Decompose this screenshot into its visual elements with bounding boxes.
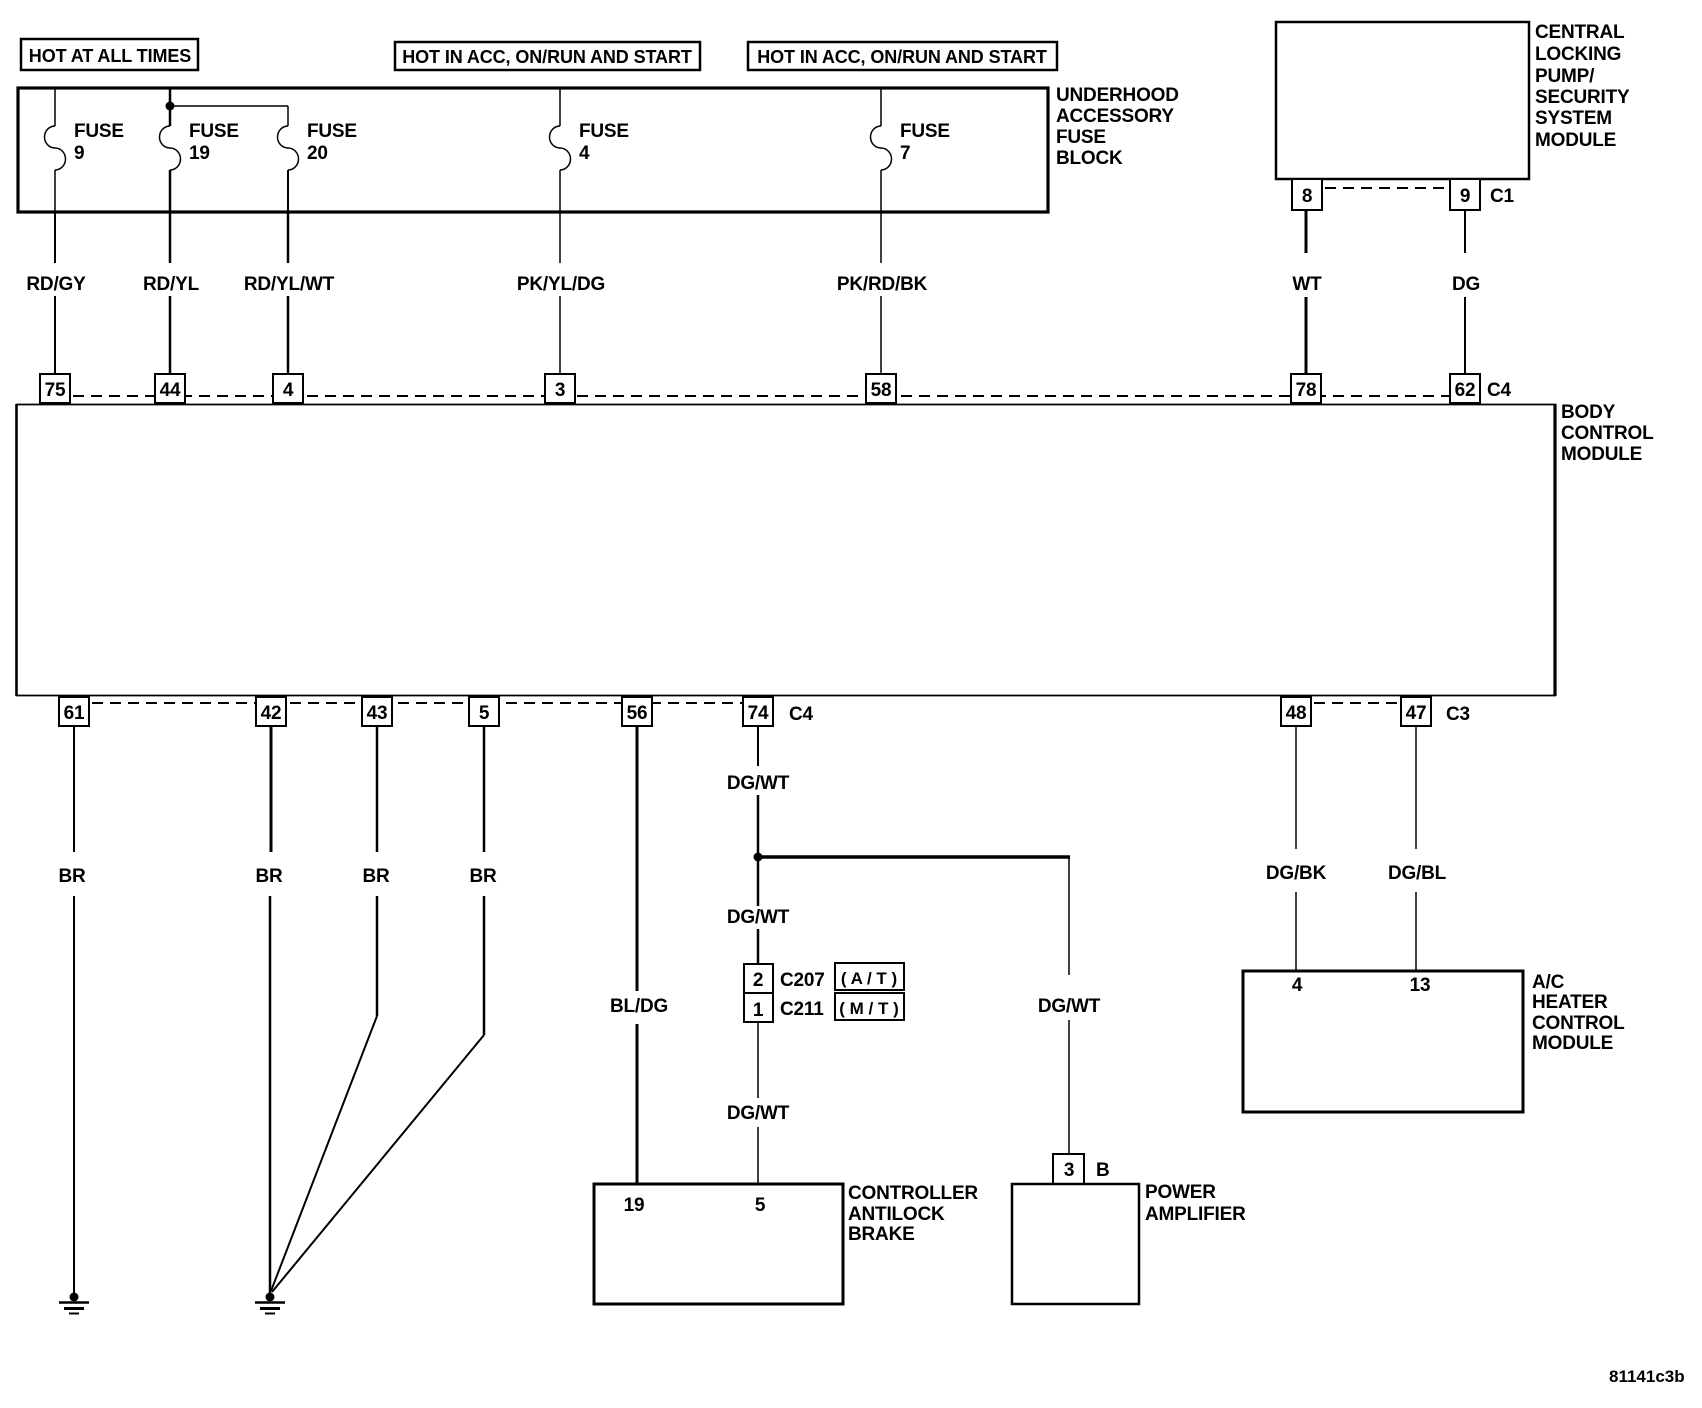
- svg-text:BRAKE: BRAKE: [848, 1224, 915, 1245]
- svg-text:DG/WT: DG/WT: [727, 1103, 790, 1124]
- svg-text:56: 56: [627, 703, 648, 724]
- svg-text:47: 47: [1406, 703, 1427, 724]
- fuse FUSE 20: [278, 106, 357, 212]
- pin 62 C4: [1450, 374, 1480, 403]
- connector C207 pin 2: [744, 964, 825, 993]
- svg-text:CONTROLLER: CONTROLLER: [848, 1183, 978, 1204]
- svg-text:4: 4: [283, 380, 294, 401]
- wire RD/YL fuse 19 to pin 44: [143, 212, 200, 374]
- svg-text:HOT IN ACC, ON/RUN AND START: HOT IN ACC, ON/RUN AND START: [402, 47, 692, 67]
- pin 74 C4: [743, 697, 773, 726]
- wire BR pin 43 to ground G2: [271, 726, 390, 1291]
- label (M/T): [835, 993, 904, 1020]
- svg-text:4: 4: [579, 143, 590, 164]
- module UNDERHOOD ACCESSORY FUSE BLOCK box: [18, 85, 1179, 212]
- svg-text:HEATER: HEATER: [1532, 992, 1608, 1013]
- wire BR pin 42 to ground G2: [255, 726, 283, 1293]
- svg-text:BODY: BODY: [1561, 402, 1616, 423]
- svg-text:WT: WT: [1292, 274, 1322, 295]
- wire DG/WT pin 74 down to junction: [727, 726, 790, 857]
- svg-text:FUSE: FUSE: [307, 121, 357, 142]
- svg-text:BR: BR: [58, 866, 86, 887]
- svg-text:19: 19: [624, 1195, 645, 1216]
- wire BR pin 61 to ground G1: [58, 726, 86, 1293]
- wire DG/WT connector C211 to controller antilock brake pin 5: [727, 1022, 790, 1184]
- wire BL/DG pin 56 to controller antilock brake pin 19: [610, 726, 668, 1184]
- fuse FUSE 19: [160, 88, 239, 212]
- pin 47 C3: [1401, 697, 1431, 726]
- ground G2: [255, 1293, 285, 1314]
- svg-text:19: 19: [189, 143, 210, 164]
- svg-text:MODULE: MODULE: [1535, 130, 1616, 151]
- pin 42 C4: [256, 697, 286, 726]
- svg-text:ACCESSORY: ACCESSORY: [1056, 106, 1174, 127]
- ground G1: [59, 1293, 89, 1314]
- svg-text:7: 7: [900, 143, 910, 164]
- svg-text:FUSE: FUSE: [189, 121, 239, 142]
- svg-text:2: 2: [753, 970, 763, 991]
- svg-text:UNDERHOOD: UNDERHOOD: [1056, 85, 1179, 106]
- module POWER AMPLIFIER: [1012, 1182, 1246, 1304]
- svg-text:4: 4: [1292, 975, 1303, 996]
- svg-text:FUSE: FUSE: [900, 121, 950, 142]
- svg-text:81141c3b: 81141c3b: [1609, 1367, 1685, 1386]
- svg-text:C3: C3: [1446, 704, 1470, 725]
- svg-text:C211: C211: [780, 999, 824, 1020]
- svg-text:RD/YL/WT: RD/YL/WT: [244, 274, 335, 295]
- wire DG pin 9 to pin 62: [1452, 210, 1480, 374]
- svg-text:75: 75: [45, 380, 66, 401]
- svg-text:C1: C1: [1490, 186, 1515, 207]
- svg-text:RD/GY: RD/GY: [26, 274, 86, 295]
- wire WT pin 8 to pin 78: [1292, 210, 1322, 374]
- module CONTROLLER ANTILOCK BRAKE: [594, 1183, 978, 1304]
- junction dot DG/WT: [754, 853, 763, 862]
- module BODY CONTROL MODULE box: [16, 402, 1654, 696]
- pin 61 C4: [59, 697, 89, 726]
- svg-text:A/C: A/C: [1532, 972, 1565, 993]
- svg-text:58: 58: [871, 380, 892, 401]
- pin 44 C4: [155, 374, 185, 403]
- svg-text:SECURITY: SECURITY: [1535, 87, 1630, 108]
- svg-text:DG: DG: [1452, 274, 1480, 295]
- svg-text:CONTROL: CONTROL: [1561, 423, 1654, 444]
- pin 3 C4: [545, 374, 575, 403]
- svg-text:13: 13: [1410, 975, 1431, 996]
- module A/C HEATER CONTROL MODULE: [1243, 971, 1625, 1112]
- dashed connector line C4 top row: [55, 395, 1465, 397]
- svg-text:74: 74: [748, 703, 769, 724]
- wire PK/RD/BK fuse 7 to pin 58: [837, 212, 928, 374]
- svg-text:42: 42: [261, 703, 282, 724]
- svg-text:44: 44: [160, 380, 181, 401]
- svg-text:1: 1: [753, 1000, 764, 1021]
- svg-text:9: 9: [74, 143, 84, 164]
- svg-text:CONTROL: CONTROL: [1532, 1013, 1625, 1034]
- svg-text:FUSE: FUSE: [74, 121, 124, 142]
- svg-text:HOT IN ACC, ON/RUN AND START: HOT IN ACC, ON/RUN AND START: [757, 47, 1047, 67]
- svg-text:LOCKING: LOCKING: [1535, 44, 1621, 65]
- svg-text:9: 9: [1460, 186, 1470, 207]
- svg-text:B: B: [1096, 1160, 1110, 1181]
- module CENTRAL LOCKING PUMP/SECURITY SYSTEM MODULE: [1276, 22, 1630, 179]
- pin 58 C4: [866, 374, 896, 403]
- dashed connector line C4 bottom row: [74, 702, 758, 704]
- pin 43 C4: [362, 697, 392, 726]
- fuse FUSE 4: [550, 88, 629, 212]
- svg-text:PK/RD/BK: PK/RD/BK: [837, 274, 928, 295]
- svg-text:PUMP/: PUMP/: [1535, 66, 1595, 87]
- svg-text:DG/WT: DG/WT: [727, 907, 790, 928]
- pin 5 C4: [469, 697, 499, 726]
- svg-text:BR: BR: [469, 866, 497, 887]
- svg-text:BR: BR: [255, 866, 283, 887]
- label HOT IN ACC, ON/RUN AND START (right): [748, 42, 1057, 70]
- svg-text:BLOCK: BLOCK: [1056, 148, 1123, 169]
- svg-text:5: 5: [755, 1195, 766, 1216]
- svg-text:3: 3: [555, 380, 565, 401]
- wire BR pin 5 to ground G2: [272, 726, 497, 1292]
- pin 56 C4: [622, 697, 652, 726]
- svg-text:78: 78: [1296, 380, 1317, 401]
- svg-text:MODULE: MODULE: [1532, 1033, 1613, 1054]
- svg-text:43: 43: [367, 703, 388, 724]
- junction dot fuse 19 branch: [166, 102, 175, 111]
- wire DG/BL pin 47 to A/C heater control module pin 13: [1388, 726, 1447, 971]
- svg-text:20: 20: [307, 143, 328, 164]
- svg-text:HOT AT ALL TIMES: HOT AT ALL TIMES: [29, 46, 191, 66]
- svg-text:CENTRAL: CENTRAL: [1535, 22, 1625, 43]
- pin 48 C3: [1281, 697, 1311, 726]
- svg-text:48: 48: [1286, 703, 1307, 724]
- wire PK/YL/DG fuse 4 to pin 3: [517, 212, 605, 374]
- svg-text:62: 62: [1455, 380, 1476, 401]
- dashed connector line C3 bottom row: [1296, 702, 1416, 704]
- label (A/T): [835, 963, 904, 990]
- svg-text:5: 5: [479, 703, 490, 724]
- svg-text:C4: C4: [789, 704, 814, 725]
- connector C211 pin 1: [744, 993, 824, 1022]
- pin 9 C1: [1450, 179, 1480, 210]
- wire DG/WT junction to connector C207 pin 2: [727, 857, 790, 964]
- dashed connector line C1: [1307, 187, 1465, 189]
- svg-text:MODULE: MODULE: [1561, 444, 1642, 465]
- svg-text:BL/DG: BL/DG: [610, 996, 668, 1017]
- wire RD/GY fuse 9 to pin 75: [26, 212, 86, 374]
- svg-text:DG/WT: DG/WT: [1038, 996, 1101, 1017]
- svg-text:C4: C4: [1487, 380, 1512, 401]
- svg-text:POWER: POWER: [1145, 1182, 1216, 1203]
- fuse FUSE 7: [871, 88, 950, 212]
- wire branch DG/WT junction to power amplifier: [758, 857, 1101, 1154]
- svg-text:RD/YL: RD/YL: [143, 274, 200, 295]
- svg-text:FUSE: FUSE: [579, 121, 629, 142]
- fuse FUSE 9: [45, 88, 124, 212]
- wire branch from fuse 19 to fuse 20: [170, 105, 288, 107]
- svg-text:FUSE: FUSE: [1056, 127, 1106, 148]
- svg-text:DG/BL: DG/BL: [1388, 863, 1447, 884]
- svg-text:( A / T ): ( A / T ): [841, 969, 897, 988]
- svg-text:ANTILOCK: ANTILOCK: [848, 1204, 945, 1225]
- svg-text:DG/BK: DG/BK: [1266, 863, 1327, 884]
- svg-text:( M / T ): ( M / T ): [839, 999, 898, 1018]
- wire DG/BK pin 48 to A/C heater control module pin 4: [1266, 726, 1327, 971]
- svg-text:PK/YL/DG: PK/YL/DG: [517, 274, 605, 295]
- label HOT IN ACC, ON/RUN AND START (left): [395, 42, 700, 70]
- label HOT AT ALL TIMES: [21, 39, 198, 70]
- svg-text:61: 61: [64, 703, 85, 724]
- svg-text:DG/WT: DG/WT: [727, 773, 790, 794]
- pin 78 C4: [1291, 374, 1321, 403]
- pin 75 C4: [40, 374, 70, 403]
- svg-text:8: 8: [1302, 186, 1312, 207]
- svg-text:C207: C207: [780, 970, 825, 991]
- svg-text:BR: BR: [362, 866, 390, 887]
- svg-text:SYSTEM: SYSTEM: [1535, 108, 1612, 129]
- pin 3 B power amplifier: [1053, 1154, 1110, 1184]
- pin 8 C1: [1292, 179, 1322, 210]
- wire RD/YL/WT fuse 20 to pin 4: [244, 212, 335, 374]
- pin 4 C4: [273, 374, 303, 403]
- svg-text:3: 3: [1064, 1160, 1074, 1181]
- svg-text:AMPLIFIER: AMPLIFIER: [1145, 1204, 1246, 1225]
